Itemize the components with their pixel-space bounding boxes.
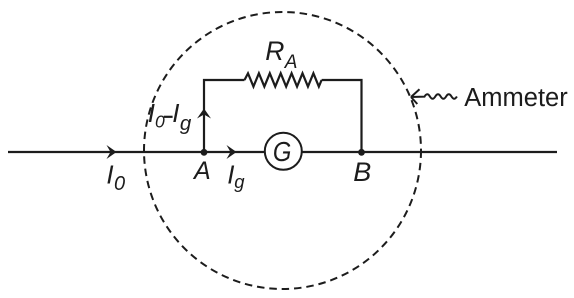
wire: main horizontal line [8,151,557,153]
minus dash of I0-Ig [164,116,173,118]
svg-text:B: B [353,157,371,187]
current arrow Ig on main wire [227,145,237,159]
galvanometer G [265,133,302,170]
node B junction dot [358,149,365,156]
svg-text:RA: RA [265,36,297,73]
wavy pointer arrow to ammeter boundary [411,89,457,104]
svg-text:I0: I0 [106,160,125,196]
resistor R_A zigzag [245,73,322,86]
svg-text:A: A [192,157,211,185]
wire: left vertical branch A to top [204,80,245,152]
current arrow I0-Ig on branch (up) [197,109,211,119]
current arrow I0 on main wire [107,145,117,159]
svg-text:Ig: Ig [227,159,245,192]
node A junction dot [201,149,208,156]
svg-text:G: G [273,135,292,167]
svg-text:Ammeter: Ammeter [464,84,568,112]
wire: top right lead and right vertical to B [322,80,362,152]
ammeter boundary dashed circle [144,12,421,289]
